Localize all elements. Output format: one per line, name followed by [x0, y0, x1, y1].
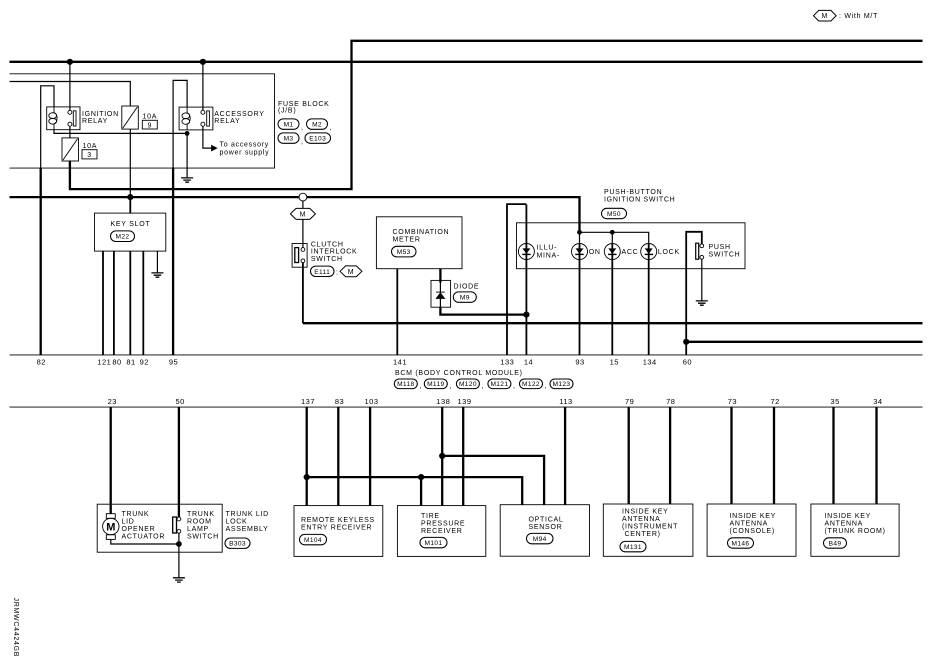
- svg-text:CENTER): CENTER): [625, 531, 661, 538]
- lamp LOCK: [641, 244, 680, 260]
- svg-text:82: 82: [37, 358, 46, 367]
- wire: push switch top loop to BCM 60: [686, 232, 702, 355]
- connector M120: [456, 379, 484, 390]
- svg-text:M2: M2: [312, 122, 322, 129]
- svg-text:92: 92: [140, 358, 149, 367]
- diode M9: [431, 280, 479, 307]
- wire: BCM 83 to keyless receiver: [337, 407, 339, 506]
- wire: BCM 50 to trunk room lamp switch: [178, 407, 180, 517]
- svg-text:34: 34: [873, 397, 882, 406]
- svg-text:SWITCH: SWITCH: [311, 256, 343, 263]
- svg-text:ROOM: ROOM: [187, 519, 212, 526]
- svg-text:9: 9: [147, 122, 152, 129]
- wire: BCM 79 to inside key antenna instrument: [628, 407, 630, 504]
- svg-text:COMBINATION: COMBINATION: [393, 229, 450, 236]
- trunk room lamp switch: [173, 511, 219, 544]
- wire: BCM 34 to inside key antenna trunk: [875, 407, 877, 504]
- wire: illumination lamp top loop to BCM 133: [507, 204, 526, 354]
- svg-text:M1: M1: [284, 122, 294, 129]
- wire: 82 wire thick below fuse block: [40, 168, 42, 355]
- wire: ignition feed bus y196.6 with drop at x579: [10, 197, 580, 232]
- svg-text:M50: M50: [607, 211, 621, 218]
- svg-text:M123: M123: [553, 381, 571, 388]
- connector E111 : M: [311, 266, 362, 277]
- push switch: [696, 243, 741, 259]
- svg-text:M119: M119: [427, 381, 444, 388]
- svg-text:(TRUNK ROOM): (TRUNK ROOM): [825, 528, 886, 535]
- svg-text:M22: M22: [116, 234, 130, 241]
- svg-text:LID: LID: [122, 519, 135, 526]
- svg-text:ACTUATOR: ACTUATOR: [122, 534, 166, 541]
- svg-text:M9: M9: [460, 295, 470, 302]
- svg-text:,: ,: [545, 383, 548, 390]
- svg-text:INSIDE KEY: INSIDE KEY: [622, 509, 669, 516]
- node: connector circle on ignition bus: [299, 193, 307, 201]
- svg-text:,: ,: [301, 138, 304, 145]
- svg-text:E111: E111: [314, 269, 330, 276]
- svg-text:M94: M94: [533, 536, 547, 543]
- svg-text:138: 138: [436, 397, 450, 406]
- svg-text::: :: [336, 269, 339, 276]
- svg-text:14: 14: [524, 358, 533, 367]
- label: TRUNK LID LOCK ASSEMBLY B303: [225, 511, 269, 548]
- node: junction ON: [577, 230, 582, 235]
- svg-text:35: 35: [830, 397, 839, 406]
- svg-text:15: 15: [610, 358, 619, 367]
- svg-text:IGNITION SWITCH: IGNITION SWITCH: [604, 197, 675, 204]
- trunk lid assembly box: [97, 504, 222, 552]
- svg-text:E103: E103: [309, 136, 326, 143]
- hexagon M (with M/T): [290, 208, 315, 219]
- ignition relay IGNITION RELAY: [47, 107, 119, 130]
- connector M3: [278, 133, 304, 145]
- connector M123: [550, 379, 573, 389]
- svg-text:PUSH: PUSH: [709, 244, 731, 251]
- svg-text:M118: M118: [397, 381, 414, 388]
- svg-text:RELAY: RELAY: [214, 118, 240, 125]
- svg-text:SWITCH: SWITCH: [709, 252, 741, 259]
- ground: key slot: [151, 251, 163, 277]
- svg-text:RECEIVER: RECEIVER: [421, 528, 463, 535]
- svg-text:(CONSOLE): (CONSOLE): [730, 528, 775, 535]
- wire: L2 bus (clutch net): [303, 322, 923, 324]
- svg-text:B303: B303: [229, 541, 246, 548]
- svg-text:LOCK: LOCK: [658, 249, 680, 256]
- svg-text:80: 80: [112, 358, 121, 367]
- svg-text:M131: M131: [624, 544, 642, 551]
- wire: ignition relay coil loop (up-over-down to BCM 82): [41, 86, 54, 168]
- lamp ACC: [604, 244, 638, 260]
- wire: meter to BCM 141: [396, 269, 398, 355]
- label: PUSH-BUTTON IGNITION SWITCH M50: [602, 189, 676, 219]
- wire: clutch switch to L2 bus: [302, 263, 304, 324]
- fuse block (J/B) box: [10, 74, 275, 168]
- svg-text:,: ,: [513, 383, 516, 390]
- optical sensor box: [500, 505, 589, 557]
- svg-text:141: 141: [393, 358, 407, 367]
- svg-text:M121: M121: [490, 381, 508, 388]
- wire: key slot to BCM 92: [142, 251, 144, 354]
- svg-text:23: 23: [108, 397, 117, 406]
- svg-text:PRESSURE: PRESSURE: [421, 521, 465, 528]
- wire: battery bus (thick horizontal): [10, 61, 923, 63]
- ground: push switch: [696, 259, 708, 305]
- svg-text:INSIDE KEY: INSIDE KEY: [825, 513, 872, 520]
- connector M2: [307, 119, 333, 131]
- wire: circle to M hexagon: [302, 201, 304, 209]
- svg-text:ASSEMBLY: ASSEMBLY: [226, 526, 269, 533]
- svg-text:134: 134: [643, 358, 657, 367]
- svg-text:M53: M53: [397, 249, 411, 256]
- wire+arrow: to accessory power supply: [203, 126, 269, 156]
- wire: BCM 138 net to tire receiver / optical sensor: [442, 407, 544, 506]
- svg-text:137: 137: [301, 397, 315, 406]
- connector M121: [488, 379, 516, 390]
- svg-text:78: 78: [666, 397, 675, 406]
- svg-text:M146: M146: [732, 541, 750, 548]
- wire: inside box feed to ON/ACC/LOCK lamps: [580, 232, 649, 244]
- svg-text:81: 81: [126, 358, 135, 367]
- svg-text:M: M: [348, 269, 355, 276]
- svg-text:power supply: power supply: [220, 149, 270, 156]
- svg-text:ILLU-: ILLU-: [537, 245, 558, 252]
- ground: trunk: [173, 544, 185, 582]
- svg-text:ENTRY RECEIVER: ENTRY RECEIVER: [301, 524, 372, 531]
- svg-text:103: 103: [364, 397, 378, 406]
- svg-text:B49: B49: [829, 541, 842, 548]
- svg-text:M3: M3: [284, 136, 294, 143]
- wire: BCM 137 net to keyless receiver / tire receiver / optical sensor: [307, 407, 523, 506]
- wire: BCM 103 to keyless receiver: [369, 407, 371, 506]
- key slot KEY SLOT M22: [95, 213, 166, 251]
- svg-text:SENSOR: SENSOR: [529, 524, 563, 531]
- svg-text:SWITCH: SWITCH: [187, 534, 219, 541]
- svg-text:OPENER: OPENER: [122, 526, 156, 533]
- inside key antenna (trunk room) box: [811, 504, 899, 556]
- svg-text:73: 73: [728, 397, 737, 406]
- connector M119: [424, 379, 452, 390]
- connector M1: [278, 119, 304, 131]
- svg-text:LAMP: LAMP: [187, 526, 209, 533]
- wire: fuse9 feed from left margin: [10, 82, 131, 107]
- svg-text:79: 79: [625, 397, 634, 406]
- svg-text:TRUNK: TRUNK: [187, 511, 215, 518]
- svg-text:TIRE: TIRE: [421, 513, 440, 520]
- inside key antenna (console) box: [707, 504, 796, 556]
- lamp ON: [572, 244, 601, 260]
- wire: ON lamp to BCM 93: [579, 244, 581, 355]
- connector M118: [394, 379, 422, 390]
- svg-text:113: 113: [559, 397, 572, 406]
- svg-text:72: 72: [771, 397, 780, 406]
- svg-text:ANTENNA: ANTENNA: [730, 521, 769, 528]
- wire: LOCK lamp to BCM 134: [648, 244, 650, 355]
- svg-text:To accessory: To accessory: [220, 142, 270, 149]
- wire: ign relay contact bottom to fuse 3: [69, 126, 71, 138]
- wire: fuse9 bottom to ignition bus: [129, 129, 131, 197]
- svg-text:M: M: [822, 13, 829, 20]
- svg-text:ON: ON: [589, 249, 601, 256]
- wire: ACC net top loop (y40 to x351 down to y188.6 left to fuse3): [70, 41, 923, 189]
- node: junction L1 / 14 wire: [523, 312, 529, 318]
- svg-text:50: 50: [176, 397, 185, 406]
- svg-text:10A: 10A: [143, 114, 158, 121]
- fuse 10A 9: [122, 106, 158, 129]
- node: junction 138 net: [439, 453, 445, 459]
- wire: BCM 23 to trunk lid opener actuator: [110, 407, 112, 514]
- wire: diode to illumination net L1: [440, 307, 526, 314]
- wire: BCM 113 to optical sensor: [564, 407, 566, 505]
- svg-text:MINA-: MINA-: [537, 252, 560, 259]
- svg-text:M120: M120: [459, 381, 477, 388]
- svg-text:10A: 10A: [83, 143, 98, 150]
- svg-text:JRMWC4424GB: JRMWC4424GB: [12, 598, 19, 658]
- node: junction bus/ignition relay: [67, 59, 73, 65]
- clutch interlock switch: [292, 241, 357, 267]
- legend hexagon M : With M/T: [814, 10, 879, 21]
- svg-text:KEY SLOT: KEY SLOT: [111, 221, 151, 228]
- tire pressure receiver box: [397, 506, 485, 557]
- svg-text:,: ,: [420, 383, 423, 390]
- wire: bus to key slot: [129, 197, 131, 213]
- inside key antenna (instrument center) box: [603, 504, 693, 556]
- svg-text:M101: M101: [425, 540, 443, 547]
- svg-text:95: 95: [169, 358, 178, 367]
- svg-text:(J/B): (J/B): [278, 108, 296, 115]
- svg-text:,: ,: [482, 383, 485, 390]
- node: junction coil-bottom / ground: [185, 131, 190, 136]
- svg-text:3: 3: [87, 152, 92, 159]
- svg-text:M: M: [106, 522, 115, 534]
- combination meter box: [376, 217, 462, 269]
- svg-text:83: 83: [335, 397, 344, 406]
- svg-text:(INSTRUMENT: (INSTRUMENT: [622, 524, 678, 531]
- wire: key slot to BCM 81: [129, 251, 131, 354]
- pin numbers BCM bottom row: [108, 397, 883, 406]
- svg-text:139: 139: [457, 397, 471, 406]
- wire: BCM 73 to inside key antenna console: [730, 407, 732, 504]
- wire: accessory relay coil loop (up-over-down to BCM 95): [173, 80, 187, 168]
- svg-text:133: 133: [500, 358, 514, 367]
- wire: 95 wire thick below fuse block: [172, 168, 174, 355]
- svg-text:ANTENNA: ANTENNA: [622, 516, 661, 523]
- svg-text:RELAY: RELAY: [82, 118, 108, 125]
- wire: BCM 78 to inside key antenna instrument: [669, 407, 671, 504]
- wire: contact top to bus: [69, 62, 71, 110]
- fuse 10A 3: [62, 138, 97, 161]
- BCM box (top and bottom lines): [10, 354, 923, 356]
- wire: hexagon to clutch switch: [302, 219, 304, 247]
- svg-text:INSIDE KEY: INSIDE KEY: [730, 513, 777, 520]
- svg-text:TRUNK: TRUNK: [122, 511, 150, 518]
- svg-text:M104: M104: [304, 537, 322, 544]
- wire: BCM 139 to tire receiver: [462, 407, 464, 506]
- wire: ign coil bottom to acc coil bottom (y132.9): [54, 130, 187, 134]
- svg-text:,: ,: [330, 124, 333, 131]
- pin numbers BCM top row: [37, 358, 692, 367]
- node: junction fuse9/bus196: [127, 194, 133, 200]
- wire: meter to diode: [439, 269, 441, 283]
- svg-text:METER: METER: [393, 236, 421, 243]
- node: junction 137 net tire: [418, 474, 424, 480]
- connector M122: [520, 379, 548, 390]
- svg-text:INTERLOCK: INTERLOCK: [311, 249, 358, 256]
- motor M trunk lid opener actuator: [103, 511, 179, 544]
- svg-text:121: 121: [97, 358, 111, 367]
- ground: fuse block: [181, 133, 193, 182]
- svg-text:M122: M122: [522, 381, 540, 388]
- svg-text:60: 60: [683, 358, 692, 367]
- svg-text:M: M: [300, 212, 307, 219]
- node: junction 60 wire / L3: [683, 339, 689, 345]
- wire: L3 push-switch net: [686, 341, 922, 343]
- lamp ILLU-MINA-: [518, 244, 560, 260]
- accessory relay ACCESSORY RELAY: [179, 107, 265, 130]
- node: junction bus/accessory relay: [200, 59, 206, 65]
- node: junction motor/switch ground: [176, 541, 182, 547]
- svg-text:REMOTE KEYLESS: REMOTE KEYLESS: [301, 517, 375, 524]
- node: junction 137 net: [304, 474, 310, 480]
- svg-text:,: ,: [450, 383, 453, 390]
- svg-text:93: 93: [575, 358, 584, 367]
- node: junction ACC: [610, 230, 615, 235]
- svg-text:: With M/T: : With M/T: [839, 13, 878, 20]
- svg-text:,: ,: [301, 124, 304, 131]
- svg-text:OPTICAL: OPTICAL: [529, 517, 564, 524]
- push-button ignition switch box: [517, 223, 746, 269]
- remote keyless entry receiver box: [294, 506, 383, 557]
- connector E103: [305, 133, 331, 143]
- wire: key slot to BCM 80: [113, 251, 115, 354]
- svg-text:ANTENNA: ANTENNA: [825, 521, 864, 528]
- svg-text:LOCK: LOCK: [226, 519, 248, 526]
- svg-text:DIODE: DIODE: [454, 284, 480, 291]
- svg-text:ACC: ACC: [622, 249, 639, 256]
- svg-text:BCM (BODY CONTROL MODULE): BCM (BODY CONTROL MODULE): [395, 370, 523, 377]
- wire: BCM 35 to inside key antenna trunk: [832, 407, 834, 504]
- label: FUSE BLOCK (J/B): [278, 101, 330, 115]
- svg-text:CLUTCH: CLUTCH: [311, 241, 344, 248]
- wire: BCM 72 to inside key antenna console: [773, 407, 775, 504]
- svg-text:PUSH-BUTTON: PUSH-BUTTON: [604, 189, 662, 196]
- wire: ACC lamp to BCM 15: [611, 244, 613, 355]
- wire: key slot to BCM 121: [102, 251, 104, 354]
- wire: acc contact top to bus: [202, 62, 204, 110]
- svg-text:TRUNK LID: TRUNK LID: [226, 511, 269, 518]
